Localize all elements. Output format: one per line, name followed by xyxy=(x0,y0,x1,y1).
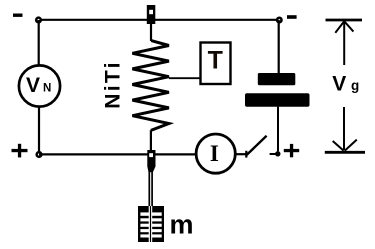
wire left upper vertical xyxy=(38,20,40,67)
wire spring bottom lead xyxy=(150,130,152,150)
battery plate short negative xyxy=(258,73,296,85)
wire ammeter right lead xyxy=(236,153,247,155)
wire bottom horizontal xyxy=(39,153,195,155)
node bottom-left junction xyxy=(35,151,42,158)
terminal bottom spring-to-mass xyxy=(147,150,155,172)
ammeter I xyxy=(196,134,235,173)
terminal top spring mount xyxy=(147,5,156,24)
minus sign top-left xyxy=(13,14,23,17)
switch pivot tick xyxy=(245,151,247,158)
svg-text:N: N xyxy=(43,83,51,95)
mass m block xyxy=(138,206,164,242)
svg-text:NiTi: NiTi xyxy=(102,60,125,108)
svg-text:T: T xyxy=(208,47,223,75)
label Vg xyxy=(332,72,359,95)
switch blade xyxy=(247,136,267,155)
minus sign top-right xyxy=(287,15,297,19)
wire spring to T sensor lead xyxy=(169,77,201,79)
svg-text:m: m xyxy=(170,210,194,240)
svg-text:I: I xyxy=(210,141,219,166)
battery plate long positive xyxy=(245,93,310,107)
wire left lower vertical xyxy=(38,106,40,155)
thermometer box T xyxy=(201,43,231,85)
plus sign battery positive xyxy=(284,144,299,157)
switch contact node xyxy=(275,151,280,156)
NiTi spring xyxy=(132,41,169,131)
node top-right junction xyxy=(276,17,283,24)
wire right lower vertical xyxy=(277,107,279,152)
Vg dimension arrow up xyxy=(326,20,363,65)
wire right upper vertical xyxy=(278,20,280,74)
Vg dimension arrow down xyxy=(325,107,365,152)
svg-text:g: g xyxy=(351,78,359,93)
switch contact stub xyxy=(270,153,276,155)
node top-left junction xyxy=(35,16,42,23)
plus sign bottom-left xyxy=(12,144,28,158)
svg-text:V: V xyxy=(26,74,40,97)
voltmeter VN xyxy=(19,65,60,106)
svg-text:V: V xyxy=(332,72,346,95)
wire spring top lead xyxy=(150,24,152,41)
rod to mass xyxy=(149,172,152,208)
wire top horizontal xyxy=(39,19,280,21)
